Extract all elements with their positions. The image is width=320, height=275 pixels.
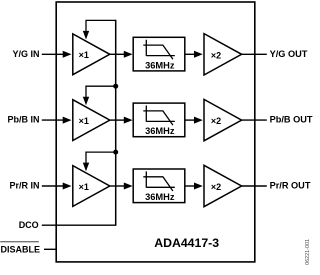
junction dot on DCO bus at channel 2 feedback (113, 84, 118, 89)
outer box: ADA4417-3 IC boundary (56, 2, 255, 262)
wire: U3B output to Pr/R OUT pin (242, 185, 267, 187)
svg-text:×1: ×1 (79, 50, 89, 60)
wire: filter FLT2 to gain amp U2B (185, 117, 203, 124)
wire: DISABLE pin stub (44, 248, 57, 250)
wire: Pr/R IN to buffer U3A (42, 183, 72, 190)
junction dot on DCO bus at channel 3 feedback (113, 150, 118, 155)
wire: U2B output to Pb/B OUT pin (242, 119, 267, 121)
wire: U1A output to filter FLT1 (110, 51, 133, 58)
wire: DCO pin to bus (42, 224, 117, 226)
svg-text:Y/G OUT: Y/G OUT (270, 49, 308, 59)
svg-text:DISABLE: DISABLE (0, 244, 40, 254)
op-amp U3A buffer x1 (73, 166, 110, 207)
op-amp U2B gain x2 (204, 99, 242, 140)
wire: filter FLT3 to gain amp U3B (185, 183, 203, 190)
wire: feedback loop into U1A top input (83, 20, 116, 39)
svg-text:36MHz: 36MHz (145, 60, 175, 70)
filter FLT1 36MHz low-pass (133, 37, 185, 71)
filter FLT3 36MHz low-pass (133, 169, 185, 203)
svg-text:DCO: DCO (19, 220, 39, 230)
svg-text:ADA4417-3: ADA4417-3 (154, 236, 219, 250)
svg-text:36MHz: 36MHz (145, 192, 175, 202)
svg-text:36MHz: 36MHz (145, 126, 175, 136)
wire: Pb/B IN to buffer U2A (42, 117, 72, 124)
wire: U2A output to filter FLT2 (110, 117, 133, 124)
svg-text:×2: ×2 (211, 50, 221, 60)
wire: feedback loop into U2A top input (83, 86, 116, 105)
wire: filter FLT1 to gain amp U1B (185, 51, 203, 58)
wire: U3A output to filter FLT3 (110, 183, 133, 190)
op-amp U1B gain x2 (204, 34, 242, 75)
wire: DCO bus vertical (115, 20, 117, 226)
svg-text:Pr/R OUT: Pr/R OUT (270, 181, 311, 191)
svg-text:×1: ×1 (79, 182, 89, 192)
op-amp U1A buffer x1 (73, 34, 110, 75)
svg-text:×1: ×1 (79, 116, 89, 126)
svg-text:Pr/R IN: Pr/R IN (9, 181, 39, 191)
svg-text:Pb/B OUT: Pb/B OUT (270, 115, 313, 125)
op-amp U3B gain x2 (204, 165, 242, 206)
svg-text:×2: ×2 (211, 182, 221, 192)
wire: Y/G IN to buffer U1A (42, 51, 72, 58)
svg-text:×2: ×2 (211, 116, 221, 126)
svg-text:Pb/B IN: Pb/B IN (7, 115, 39, 125)
filter FLT2 36MHz low-pass (133, 103, 185, 137)
svg-text:Y/G IN: Y/G IN (12, 49, 39, 59)
wire: U1B output to Y/G OUT pin (242, 53, 267, 55)
wire: feedback loop into U3A top input (83, 152, 116, 171)
svg-text:06221-001: 06221-001 (305, 239, 311, 265)
node DISABLE label (active-low overbar) (0, 242, 40, 255)
op-amp U2A buffer x1 (73, 100, 110, 141)
